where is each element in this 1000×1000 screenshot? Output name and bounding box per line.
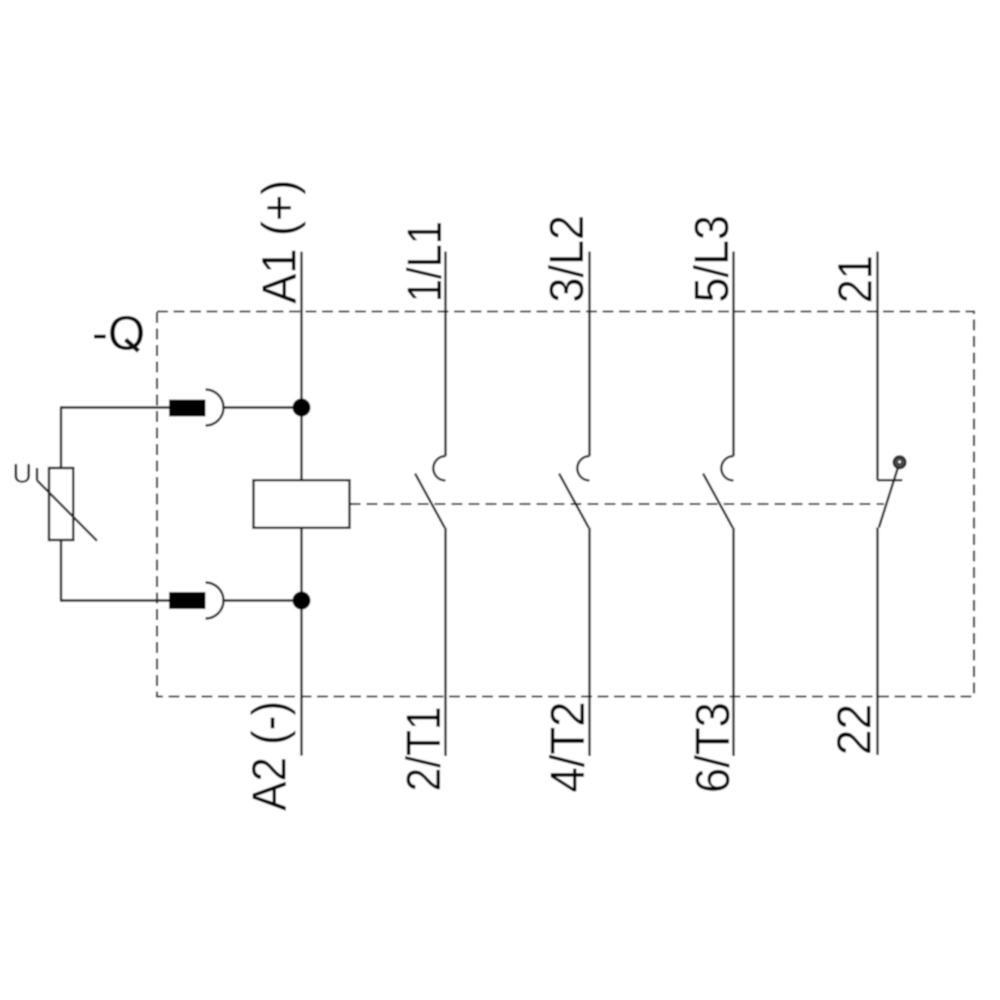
svg-text:2/T1: 2/T1 (398, 706, 451, 791)
svg-text:1/L1: 1/L1 (399, 221, 452, 302)
svg-text:A2 (-): A2 (-) (244, 701, 297, 811)
svg-text:5/L3: 5/L3 (686, 215, 739, 303)
svg-text:-O: -O (92, 307, 145, 360)
svg-text:U: U (13, 459, 33, 489)
svg-text:4/T2: 4/T2 (542, 702, 595, 793)
svg-text:21: 21 (830, 255, 883, 303)
svg-text:22: 22 (829, 704, 882, 756)
svg-text:6/T3: 6/T3 (687, 702, 740, 793)
svg-text:A1 (+): A1 (+) (253, 180, 306, 304)
svg-text:3/L2: 3/L2 (541, 215, 594, 303)
